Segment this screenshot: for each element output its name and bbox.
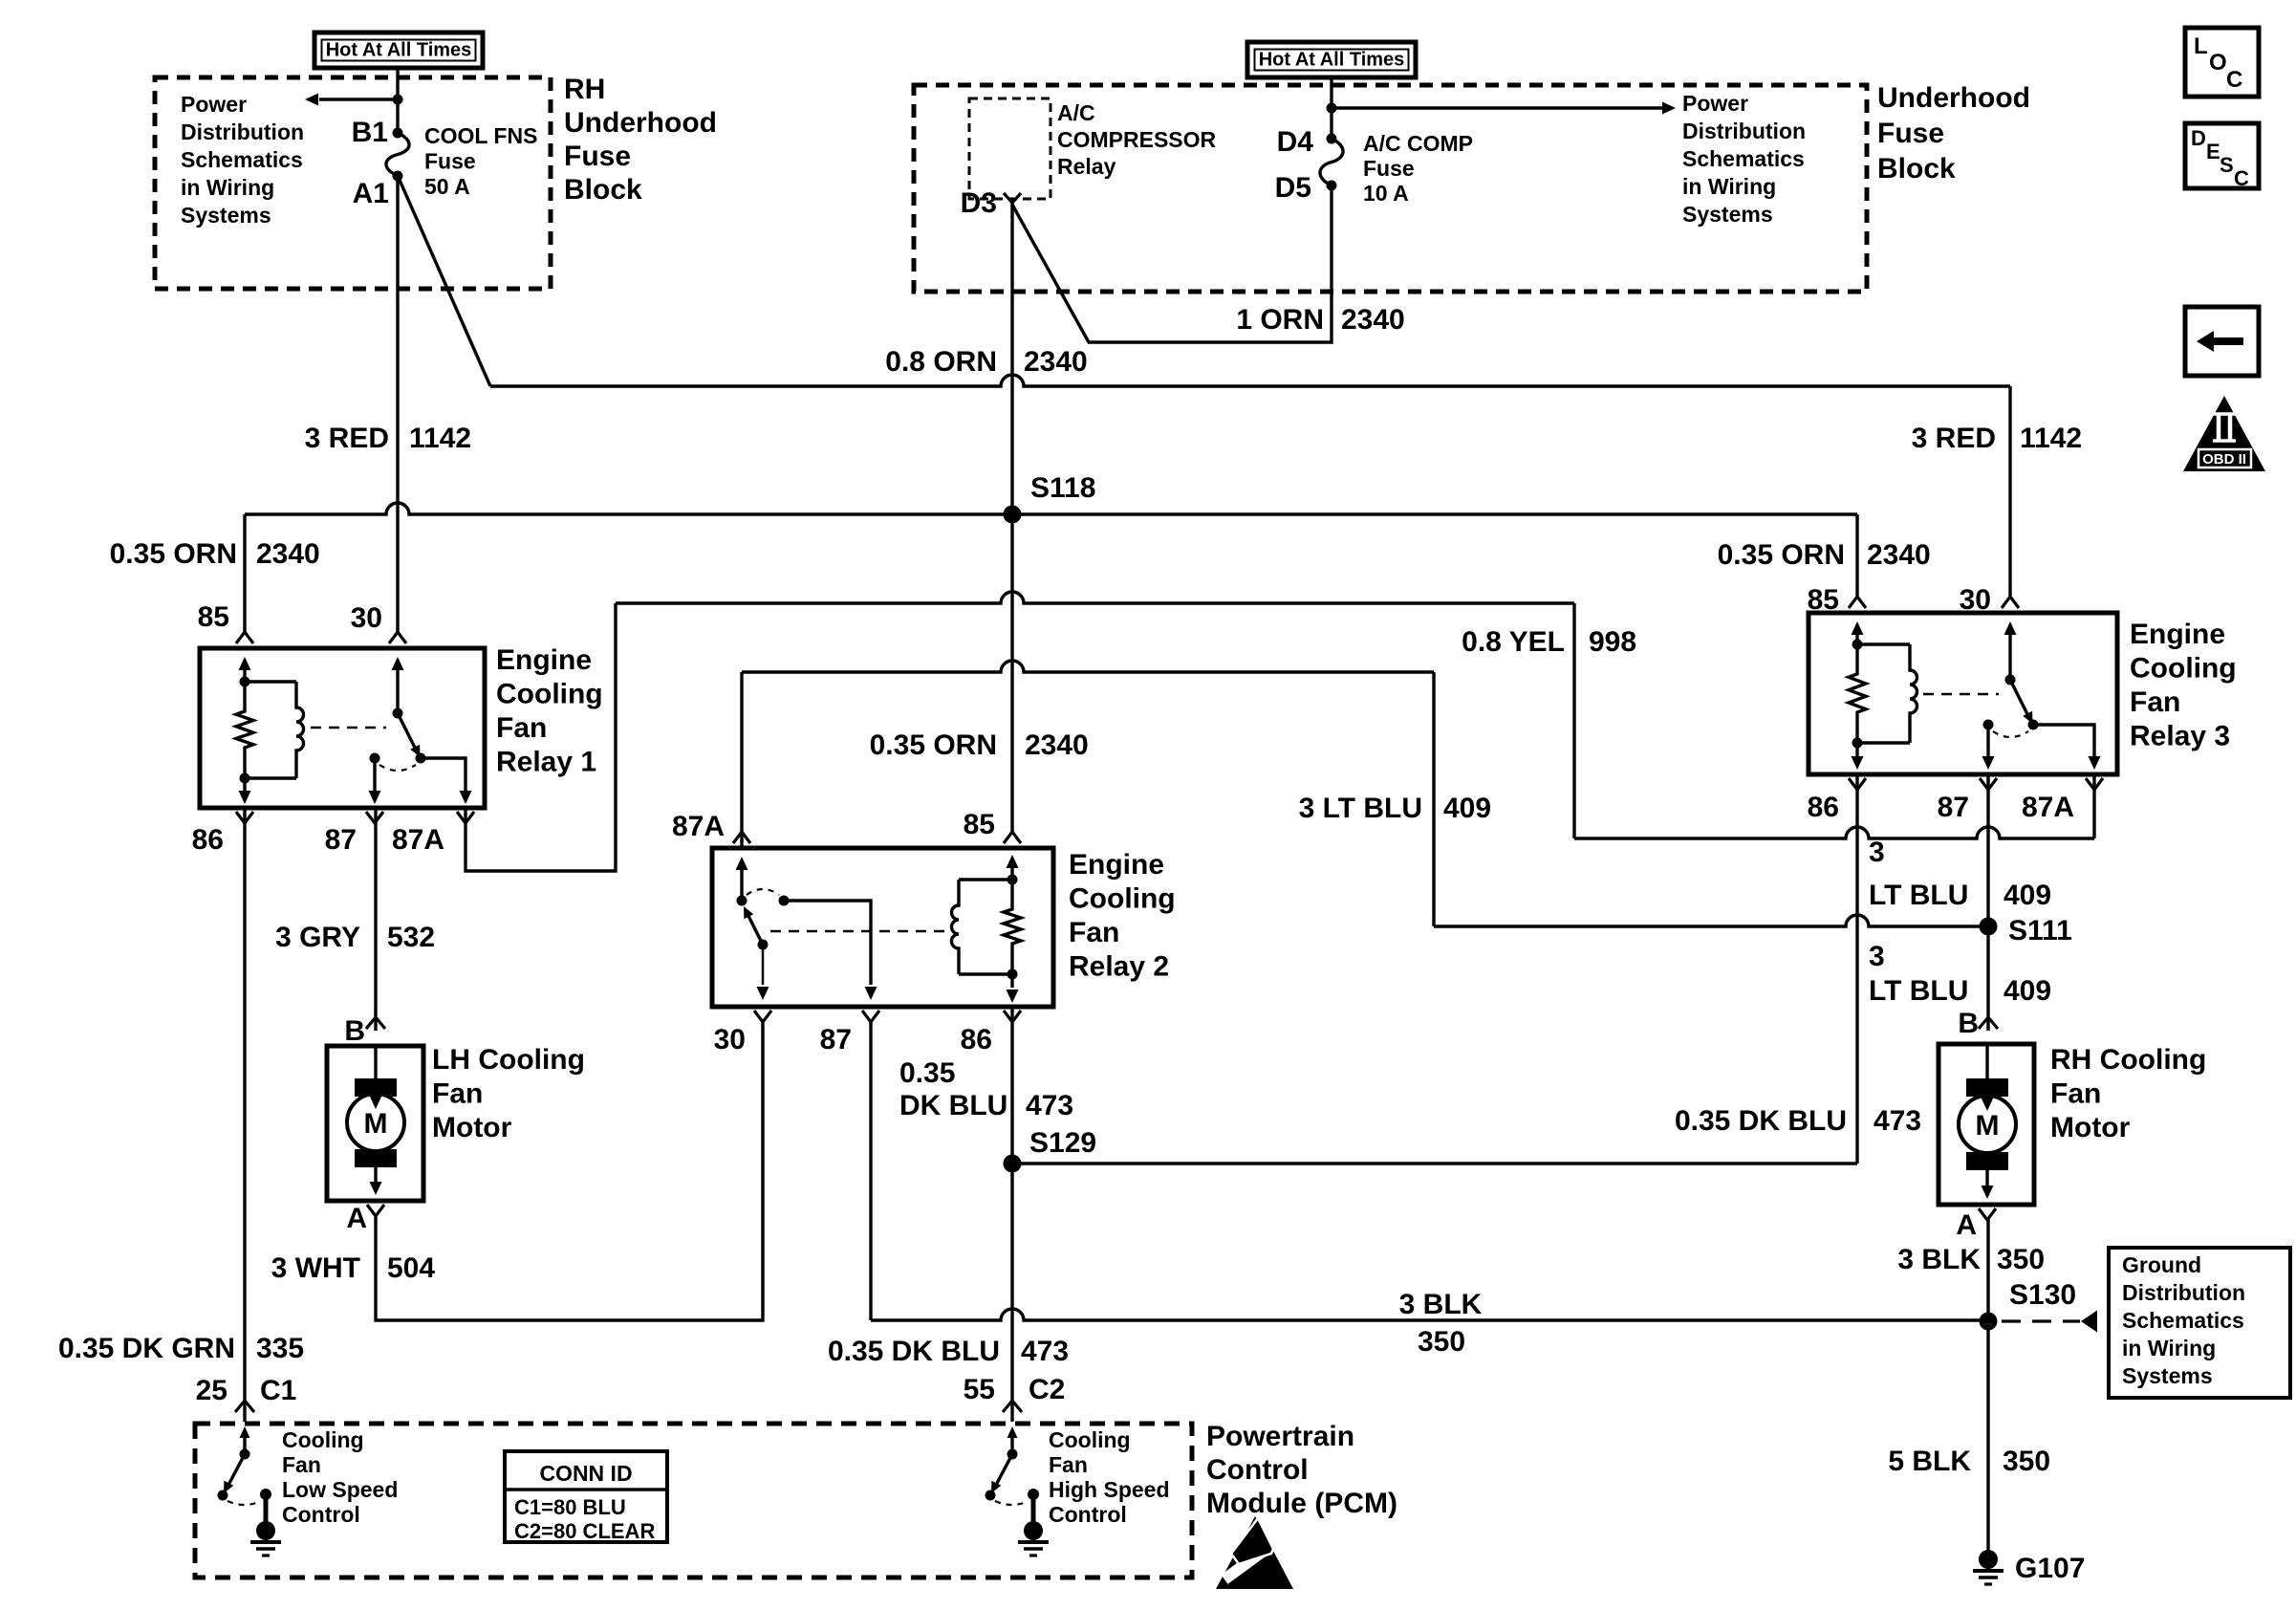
wire relay3 87A stub bbox=[2092, 774, 2095, 838]
svg-text:350: 350 bbox=[2003, 1446, 2050, 1477]
icon OBD II triangle bbox=[2183, 396, 2265, 471]
svg-text:350: 350 bbox=[1997, 1244, 2045, 1275]
svg-text:C1=80 BLU: C1=80 BLU bbox=[514, 1495, 626, 1519]
svg-text:CONN ID: CONN ID bbox=[539, 1461, 632, 1486]
svg-text:87A: 87A bbox=[392, 824, 444, 856]
svg-text:87A: 87A bbox=[672, 811, 725, 842]
table CONN ID bbox=[505, 1451, 667, 1542]
svg-text:Control: Control bbox=[282, 1502, 360, 1527]
svg-text:409: 409 bbox=[2004, 975, 2051, 1007]
wire S129 branch to relay3 86 bbox=[1012, 1162, 1857, 1164]
relay1 resistor bbox=[236, 682, 253, 778]
svg-text:Relay: Relay bbox=[1057, 154, 1116, 179]
svg-text:A: A bbox=[346, 1203, 367, 1234]
svg-text:A1: A1 bbox=[353, 178, 389, 209]
svg-text:B: B bbox=[1958, 1008, 1979, 1039]
connector relay1 pin 87A bbox=[457, 812, 474, 823]
svg-text:Distribution: Distribution bbox=[2122, 1280, 2245, 1305]
relay3 resistor bbox=[1849, 644, 1866, 743]
wire 0.35 ORN 2340 S118 branch (hop over 3 RED) bbox=[245, 503, 1857, 514]
icon back-arrow bbox=[2185, 307, 2259, 376]
svg-text:998: 998 bbox=[1589, 626, 1636, 658]
svg-text:Schematics: Schematics bbox=[2122, 1308, 2244, 1333]
svg-text:473: 473 bbox=[1021, 1336, 1069, 1367]
connector relay2 pin 87A bbox=[733, 832, 750, 843]
connector C1 bbox=[235, 1401, 254, 1412]
svg-text:0.35 ORN: 0.35 ORN bbox=[1718, 539, 1845, 571]
wire horizontal y877 to relay3 87A (hops over 86,87) bbox=[1574, 827, 2094, 838]
svg-text:Underhood: Underhood bbox=[564, 107, 717, 139]
svg-text:30: 30 bbox=[1960, 584, 1991, 616]
svg-text:Power: Power bbox=[181, 92, 247, 117]
svg-text:Schematics: Schematics bbox=[181, 147, 303, 172]
svg-text:55: 55 bbox=[964, 1374, 995, 1405]
svg-text:3 GRY: 3 GRY bbox=[275, 922, 360, 953]
svg-text:350: 350 bbox=[1418, 1326, 1465, 1358]
splice S130 bbox=[1980, 1313, 1998, 1331]
relay1 coil branch (85-86) bbox=[243, 669, 246, 682]
connector RH motor A bbox=[1979, 1208, 1996, 1220]
connector relay3 pin 30 bbox=[2002, 597, 2019, 608]
svg-text:G107: G107 bbox=[2015, 1553, 2085, 1584]
svg-text:2340: 2340 bbox=[1867, 539, 1931, 571]
svg-text:Relay 1: Relay 1 bbox=[496, 747, 596, 778]
svg-text:86: 86 bbox=[1808, 792, 1839, 823]
svg-text:3: 3 bbox=[1869, 941, 1885, 972]
svg-text:86: 86 bbox=[961, 1024, 992, 1055]
svg-text:Motor: Motor bbox=[432, 1112, 512, 1143]
relay2 87 contact wire bbox=[784, 901, 871, 985]
svg-text:Cooling: Cooling bbox=[1049, 1427, 1131, 1452]
svg-text:M: M bbox=[1976, 1110, 2000, 1142]
svg-text:Fan: Fan bbox=[282, 1452, 321, 1477]
relay2 switch (87A/30/87) bbox=[740, 869, 743, 901]
fuse A/C COMP 10 A bbox=[1327, 134, 1337, 144]
svg-text:Engine: Engine bbox=[1069, 849, 1164, 881]
diagonal wire from A1 bbox=[399, 178, 490, 386]
svg-text:Schematics: Schematics bbox=[1682, 146, 1805, 171]
svg-text:in Wiring: in Wiring bbox=[181, 175, 274, 200]
svg-text:A/C: A/C bbox=[1057, 100, 1095, 125]
svg-text:Fuse: Fuse bbox=[1877, 118, 1944, 149]
svg-text:Fan: Fan bbox=[2130, 686, 2180, 718]
svg-text:Engine: Engine bbox=[2130, 619, 2225, 650]
PCM switch Cooling Fan High Speed Control bbox=[1010, 1434, 1013, 1454]
svg-text:LT BLU: LT BLU bbox=[1869, 880, 1968, 911]
svg-text:Block: Block bbox=[1877, 153, 1956, 185]
dashed box RH Underhood Fuse Block bbox=[155, 77, 551, 289]
svg-text:Systems: Systems bbox=[1682, 202, 1773, 227]
svg-text:Hot At All Times: Hot At All Times bbox=[1259, 50, 1405, 71]
svg-text:532: 532 bbox=[387, 922, 435, 953]
svg-text:Fan: Fan bbox=[496, 712, 547, 744]
relay3 87 contact bbox=[1983, 720, 1994, 730]
svg-text:0.8 ORN: 0.8 ORN bbox=[885, 346, 997, 378]
junction dot left bbox=[393, 95, 403, 105]
svg-text:C: C bbox=[2226, 67, 2242, 93]
connector relay3 pin 86 bbox=[1849, 778, 1866, 790]
svg-text:0.35: 0.35 bbox=[899, 1057, 955, 1089]
svg-text:Fuse: Fuse bbox=[564, 141, 631, 172]
dashed box Powertrain Control Module (PCM) bbox=[195, 1424, 1192, 1577]
svg-text:Fan: Fan bbox=[1049, 1452, 1088, 1477]
svg-text:Fan: Fan bbox=[432, 1078, 483, 1110]
dashed box A/C COMPRESSOR Relay bbox=[969, 98, 1051, 199]
svg-text:D5: D5 bbox=[1275, 172, 1311, 204]
wire horizontal y969 to S111 (hop over 86 wire) bbox=[1434, 915, 1988, 926]
relay2 dashed throw arc bbox=[747, 889, 779, 895]
relay3 87A contact wire bbox=[2033, 725, 2094, 757]
connector relay3 pin 85 bbox=[1849, 597, 1866, 608]
svg-text:High Speed: High Speed bbox=[1049, 1477, 1170, 1502]
relay2 actuation dashed line bbox=[770, 930, 950, 933]
wire 3 LT BLU 409 relay3 87 down to RH motor bbox=[1986, 774, 1989, 1031]
svg-text:3 BLK: 3 BLK bbox=[1399, 1289, 1483, 1320]
svg-text:87: 87 bbox=[1938, 792, 1969, 823]
wire 0.35 DK BLU relay3 86 down to S129 line bbox=[1855, 774, 1858, 1164]
wire 3 LT BLU 409 vertical bbox=[1432, 672, 1435, 926]
svg-text:335: 335 bbox=[256, 1333, 304, 1364]
svg-text:2340: 2340 bbox=[1024, 346, 1088, 378]
ESD warning symbol bbox=[1216, 1516, 1293, 1589]
connector relay1 pin 87 bbox=[366, 812, 383, 823]
wire 3 RED 1142 (right, down to relay3 pin 30) bbox=[2008, 386, 2011, 597]
svg-text:Cooling: Cooling bbox=[2130, 653, 2237, 685]
svg-text:M: M bbox=[364, 1108, 388, 1140]
motor box RH Cooling Fan Motor bbox=[1939, 1044, 2034, 1205]
wire 3 RED 1142 (left, A1 down to relay1 pin 30) bbox=[396, 176, 399, 632]
wire down to relay1 pin 85 bbox=[243, 514, 246, 632]
svg-text:25: 25 bbox=[196, 1375, 227, 1406]
connector relay1 pin 86 bbox=[236, 812, 253, 823]
svg-text:85: 85 bbox=[964, 809, 995, 840]
svg-text:Relay 2: Relay 2 bbox=[1069, 951, 1169, 983]
relay1 87 contact bbox=[370, 753, 380, 764]
svg-text:Underhood: Underhood bbox=[1877, 82, 2030, 114]
svg-text:Fuse: Fuse bbox=[1363, 156, 1415, 181]
splice S111 bbox=[1980, 918, 1998, 936]
svg-text:DK BLU: DK BLU bbox=[899, 1090, 1007, 1121]
svg-text:504: 504 bbox=[387, 1252, 435, 1284]
svg-text:87: 87 bbox=[325, 824, 357, 856]
wire from Hot At All Times (right) to fuse D4 bbox=[1330, 77, 1332, 139]
svg-text:Engine: Engine bbox=[496, 644, 592, 676]
connector LH motor B bbox=[366, 1017, 385, 1029]
svg-text:in Wiring: in Wiring bbox=[2122, 1336, 2216, 1360]
connector C2 bbox=[1003, 1401, 1022, 1412]
connector relay2 pin 85 bbox=[1004, 832, 1021, 843]
wire down to relay3 pin 85 bbox=[1855, 514, 1858, 597]
svg-text:85: 85 bbox=[198, 601, 229, 633]
svg-text:3 BLK: 3 BLK bbox=[1897, 1244, 1981, 1275]
svg-text:1 ORN: 1 ORN bbox=[1236, 304, 1324, 336]
ground G107 bbox=[1979, 1550, 1998, 1569]
wire 3 BLK 350 motor A to S130 bbox=[1986, 1218, 1989, 1321]
svg-text:86: 86 bbox=[192, 824, 224, 856]
splice S118 bbox=[1004, 506, 1022, 524]
svg-text:Distribution: Distribution bbox=[1682, 119, 1806, 143]
label box "Hot At All Times" (left) bbox=[314, 33, 483, 68]
arrow to Power Distribution (left) bbox=[319, 98, 398, 100]
svg-text:Block: Block bbox=[564, 174, 642, 206]
svg-text:1142: 1142 bbox=[2020, 423, 2082, 454]
svg-text:0.35 DK BLU: 0.35 DK BLU bbox=[1675, 1105, 1847, 1137]
svg-text:Low Speed: Low Speed bbox=[282, 1477, 398, 1502]
wire from Hot At All Times to fuse B1 bbox=[396, 68, 399, 134]
wire 3 WHT 504 LH motor A to relay2 pin 30 bbox=[376, 1022, 763, 1320]
wire relay2 87A up bbox=[740, 672, 743, 848]
wire 3 RED 1142 top horizontal (hop over 0.8 ORN) bbox=[490, 375, 2010, 386]
svg-text:Systems: Systems bbox=[2122, 1363, 2213, 1388]
svg-text:Cooling: Cooling bbox=[282, 1427, 364, 1452]
dashed box Underhood Fuse Block bbox=[914, 85, 1867, 292]
wire 5 BLK 350 S130 to G107 bbox=[1986, 1321, 1989, 1551]
wire 3 GRY 532 relay1 87 to LH motor B bbox=[374, 808, 377, 1031]
svg-text:0.35 ORN: 0.35 ORN bbox=[110, 538, 237, 570]
wire horizontal y703 (hop over 0.8 ORN) bbox=[742, 661, 1434, 672]
svg-text:3 WHT: 3 WHT bbox=[271, 1252, 360, 1284]
splice S129 bbox=[1004, 1155, 1022, 1173]
svg-text:COMPRESSOR: COMPRESSOR bbox=[1057, 127, 1217, 152]
svg-text:COOL FNS: COOL FNS bbox=[424, 123, 537, 148]
svg-text:Powertrain: Powertrain bbox=[1206, 1421, 1354, 1452]
relay1 dashed throw arc bbox=[379, 765, 416, 771]
fuse COOL FNS 50 A bbox=[393, 128, 403, 139]
relay3 actuation dashed line bbox=[1923, 693, 1999, 696]
svg-text:473: 473 bbox=[1026, 1090, 1073, 1121]
connector relay3 pin 87 bbox=[1980, 778, 1997, 790]
svg-text:Control: Control bbox=[1206, 1454, 1309, 1486]
svg-text:Ground: Ground bbox=[2122, 1252, 2201, 1277]
svg-text:3: 3 bbox=[1869, 837, 1885, 868]
svg-text:5 BLK: 5 BLK bbox=[1888, 1446, 1971, 1477]
wire 0.35 DK GRN 335 relay1 86 down to PCM C1 bbox=[243, 808, 246, 1422]
svg-text:0.35 ORN: 0.35 ORN bbox=[870, 729, 997, 761]
svg-text:50 A: 50 A bbox=[424, 174, 470, 199]
svg-text:409: 409 bbox=[2004, 880, 2051, 911]
svg-text:S118: S118 bbox=[1030, 472, 1095, 504]
relay box Engine Cooling Fan Relay 3 bbox=[1809, 613, 2117, 774]
svg-text:Fuse: Fuse bbox=[424, 149, 476, 174]
connector relay2 pin 30 bbox=[754, 1011, 771, 1022]
relay1 actuation dashed line bbox=[311, 727, 386, 729]
relay2 coil bbox=[959, 878, 1012, 881]
svg-text:87: 87 bbox=[820, 1024, 852, 1055]
svg-text:1142: 1142 bbox=[409, 423, 471, 454]
svg-text:LH Cooling: LH Cooling bbox=[432, 1044, 585, 1076]
connector relay1 pin 85 bbox=[236, 632, 253, 643]
svg-text:L: L bbox=[2194, 33, 2208, 59]
svg-text:Motor: Motor bbox=[2050, 1112, 2131, 1143]
svg-text:E: E bbox=[2206, 140, 2220, 163]
relay1 switch (30/87/87A) bbox=[396, 669, 399, 713]
icon DESC bbox=[2185, 123, 2259, 188]
box Ground Distribution Schematics in Wiring Systems bbox=[2109, 1248, 2290, 1398]
svg-text:87A: 87A bbox=[2022, 792, 2074, 823]
svg-text:LT BLU: LT BLU bbox=[1869, 975, 1968, 1007]
relay1 87A contact wire bbox=[421, 758, 466, 792]
connector LH motor A bbox=[367, 1205, 384, 1216]
svg-text:409: 409 bbox=[1443, 793, 1491, 824]
svg-text:Power: Power bbox=[1682, 91, 1748, 116]
wire 0.8 ORN 2340 (D3 down through S118 to relay2 pin 85) bbox=[1010, 203, 1013, 832]
icon LOC bbox=[2185, 28, 2259, 97]
svg-text:30: 30 bbox=[351, 602, 382, 634]
relay3 coil branch (85-86) bbox=[1855, 634, 1858, 644]
svg-text:Fan: Fan bbox=[2050, 1078, 2101, 1110]
relay box Engine Cooling Fan Relay 1 bbox=[200, 648, 485, 808]
svg-text:in Wiring: in Wiring bbox=[1682, 174, 1776, 199]
svg-text:C2: C2 bbox=[1029, 1374, 1065, 1405]
svg-text:0.35 DK GRN: 0.35 DK GRN bbox=[58, 1333, 235, 1364]
relay3 coil bbox=[1857, 642, 1910, 645]
svg-text:O: O bbox=[2209, 50, 2227, 76]
relay3 switch (30/87/87A) bbox=[2008, 634, 2011, 680]
svg-text:2340: 2340 bbox=[1025, 729, 1089, 761]
relay1 coil bbox=[245, 680, 296, 683]
connector RH motor B bbox=[1979, 1017, 1998, 1029]
svg-text:473: 473 bbox=[1874, 1105, 1921, 1137]
svg-text:S111: S111 bbox=[2008, 915, 2072, 946]
wire 3 BLK 350 relay2 87 to S130 (hop over C2 wire) bbox=[869, 1022, 872, 1320]
wire 0.35 DK BLU 473 relay2 86 down to PCM C2 bbox=[1010, 1007, 1013, 1422]
svg-text:C1: C1 bbox=[260, 1375, 296, 1406]
svg-text:OBD II: OBD II bbox=[2202, 451, 2246, 468]
svg-text:B: B bbox=[344, 1015, 365, 1047]
svg-text:2340: 2340 bbox=[256, 538, 320, 570]
svg-text:85: 85 bbox=[1808, 584, 1839, 616]
label box "Hot At All Times" (right) bbox=[1247, 42, 1416, 77]
relay3 dashed throw arc bbox=[1993, 731, 2028, 737]
wire 1 ORN 2340 from D5 to D3 bbox=[1012, 185, 1332, 342]
connector relay2 pin 87 bbox=[862, 1011, 879, 1022]
wire 0.8 YEL 998 vertical bbox=[1572, 603, 1575, 838]
svg-text:RH Cooling: RH Cooling bbox=[2050, 1044, 2206, 1076]
svg-text:Hot At All Times: Hot At All Times bbox=[326, 40, 472, 61]
svg-text:Control: Control bbox=[1049, 1502, 1127, 1527]
svg-text:3 LT BLU: 3 LT BLU bbox=[1299, 793, 1422, 824]
svg-text:D3: D3 bbox=[961, 187, 997, 219]
svg-text:S129: S129 bbox=[1029, 1127, 1096, 1159]
svg-text:0.8 YEL: 0.8 YEL bbox=[1462, 626, 1565, 658]
dashed arrow to Ground Distribution bbox=[2002, 1319, 2080, 1322]
svg-text:Cooling: Cooling bbox=[496, 679, 603, 710]
motor box LH Cooling Fan Motor bbox=[327, 1046, 423, 1201]
svg-text:Relay 3: Relay 3 bbox=[2130, 721, 2230, 752]
svg-text:Systems: Systems bbox=[181, 203, 271, 228]
wire horizontal y631 (hop over 0.8 ORN) bbox=[616, 592, 1574, 603]
connector relay3 pin 87A bbox=[2086, 778, 2103, 790]
svg-text:3 RED: 3 RED bbox=[1912, 423, 1996, 454]
svg-text:A: A bbox=[1956, 1209, 1977, 1241]
svg-text:C: C bbox=[2234, 166, 2249, 190]
svg-text:S130: S130 bbox=[2009, 1279, 2076, 1311]
svg-text:Distribution: Distribution bbox=[181, 120, 304, 144]
terminal D3 bbox=[1004, 193, 1021, 203]
wire relay1 87A down-right-up bbox=[466, 603, 616, 871]
svg-text:S: S bbox=[2220, 153, 2234, 177]
junction dot right bbox=[1327, 103, 1337, 114]
svg-text:D: D bbox=[2191, 126, 2206, 150]
svg-text:Fan: Fan bbox=[1069, 917, 1119, 948]
svg-text:0.35 DK BLU: 0.35 DK BLU bbox=[828, 1336, 1000, 1367]
relay box Engine Cooling Fan Relay 2 bbox=[712, 848, 1053, 1007]
arrow to Power Distribution (right) bbox=[1332, 106, 1663, 109]
svg-text:3 RED: 3 RED bbox=[305, 423, 389, 454]
svg-text:2340: 2340 bbox=[1341, 304, 1405, 336]
svg-text:Cooling: Cooling bbox=[1069, 883, 1176, 915]
PCM switch Cooling Fan Low Speed Control bbox=[243, 1434, 246, 1454]
connector relay2 pin 86 bbox=[1004, 1011, 1021, 1022]
svg-text:D4: D4 bbox=[1277, 126, 1314, 158]
svg-text:Module (PCM): Module (PCM) bbox=[1206, 1488, 1397, 1519]
svg-text:30: 30 bbox=[714, 1024, 746, 1055]
svg-text:B1: B1 bbox=[352, 117, 388, 148]
relay2 resistor bbox=[1004, 880, 1021, 974]
svg-text:C2=80 CLEAR: C2=80 CLEAR bbox=[514, 1519, 655, 1543]
svg-text:A/C COMP: A/C COMP bbox=[1363, 131, 1473, 156]
svg-text:RH: RH bbox=[564, 74, 605, 105]
svg-text:10 A: 10 A bbox=[1363, 181, 1409, 206]
connector relay1 pin 30 bbox=[389, 632, 406, 643]
